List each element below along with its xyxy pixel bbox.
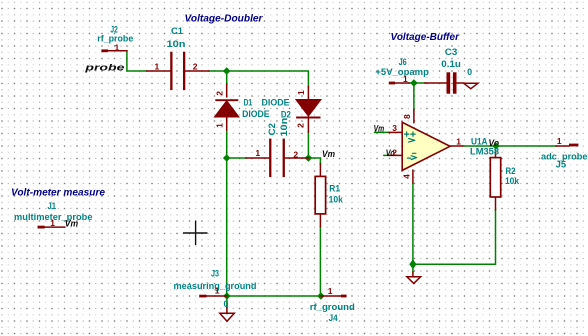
svg-text:R2: R2	[506, 166, 516, 176]
svg-text:1: 1	[328, 286, 333, 296]
svg-text:10n: 10n	[167, 39, 186, 49]
svg-text:J1: J1	[48, 201, 57, 211]
svg-text:0.1u: 0.1u	[441, 59, 461, 69]
svg-text:2: 2	[296, 123, 306, 128]
svg-text:Volt-meter measure: Volt-meter measure	[11, 186, 105, 198]
svg-text:1: 1	[403, 74, 408, 84]
svg-text:U1A: U1A	[471, 137, 488, 147]
svg-text:D1: D1	[244, 97, 253, 107]
svg-text:DIODE: DIODE	[242, 109, 270, 119]
svg-text:probe: probe	[84, 63, 126, 74]
svg-text:J5: J5	[556, 160, 567, 170]
svg-text:Vm: Vm	[65, 218, 79, 229]
svg-text:1: 1	[456, 137, 461, 147]
svg-text:Vm: Vm	[322, 149, 335, 160]
svg-text:Vm: Vm	[374, 124, 385, 135]
svg-text:1: 1	[50, 218, 55, 228]
svg-text:1: 1	[296, 90, 306, 95]
svg-text:1: 1	[115, 42, 120, 52]
svg-text:1: 1	[215, 123, 225, 128]
svg-text:Voltage-Doubler: Voltage-Doubler	[185, 12, 264, 24]
svg-text:2: 2	[215, 91, 225, 96]
svg-text:J6: J6	[399, 57, 407, 67]
svg-text:DIODE: DIODE	[262, 97, 290, 107]
svg-text:10k: 10k	[505, 176, 520, 186]
svg-text:R1: R1	[329, 183, 340, 193]
svg-text:1: 1	[215, 285, 220, 295]
svg-text:rf_ground: rf_ground	[310, 302, 355, 312]
svg-text:J3: J3	[211, 268, 219, 278]
svg-text:8: 8	[402, 114, 412, 119]
svg-text:10n: 10n	[279, 118, 289, 137]
svg-text:C1: C1	[171, 26, 183, 36]
svg-text:4: 4	[401, 174, 411, 179]
svg-text:1: 1	[557, 136, 562, 146]
svg-text:0: 0	[224, 299, 229, 309]
svg-text:10k: 10k	[329, 195, 344, 205]
svg-text:J4: J4	[329, 313, 338, 323]
svg-text:0: 0	[467, 67, 472, 77]
svg-text:Vo: Vo	[489, 138, 500, 149]
svg-text:C3: C3	[445, 47, 458, 57]
svg-text:1: 1	[155, 62, 160, 72]
svg-text:3: 3	[392, 123, 397, 133]
svg-text:2: 2	[293, 150, 298, 160]
svg-text:2: 2	[193, 62, 198, 72]
svg-text:2: 2	[392, 148, 397, 158]
svg-text:Voltage-Buffer: Voltage-Buffer	[391, 31, 460, 43]
svg-text:1: 1	[255, 148, 260, 158]
svg-text:C2: C2	[267, 123, 277, 136]
